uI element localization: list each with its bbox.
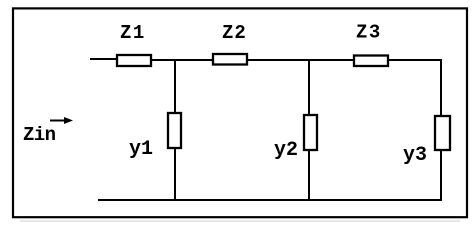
svg-text:y1: y1 [129,138,153,161]
wire right vertical branch [440,59,442,201]
svg-text:Zin: Zin [23,124,56,146]
svg-text:y2: y2 [274,139,298,162]
wire shunt branch y1 [174,59,176,201]
admittance y1 [129,113,181,161]
wire Z3 to right corner [388,59,442,61]
admittance y3 [403,116,450,167]
wire shunt branch y2 [308,59,310,201]
impedance Z2 [213,22,247,65]
wire bottom return [98,199,442,201]
svg-text:Z1: Z1 [120,22,146,44]
wire input segment to Z1 [90,58,117,60]
impedance Z1 [117,22,151,66]
svg-text:y3: y3 [403,144,427,167]
impedance Z3 [354,22,388,67]
svg-text:Z2: Z2 [222,22,247,44]
wire Z2 to Z3 [247,59,354,61]
admittance y2 [274,115,317,162]
wire Z1 to Z2 [151,59,213,61]
label Zin with input arrow [23,117,73,146]
svg-text:Z3: Z3 [356,22,382,44]
